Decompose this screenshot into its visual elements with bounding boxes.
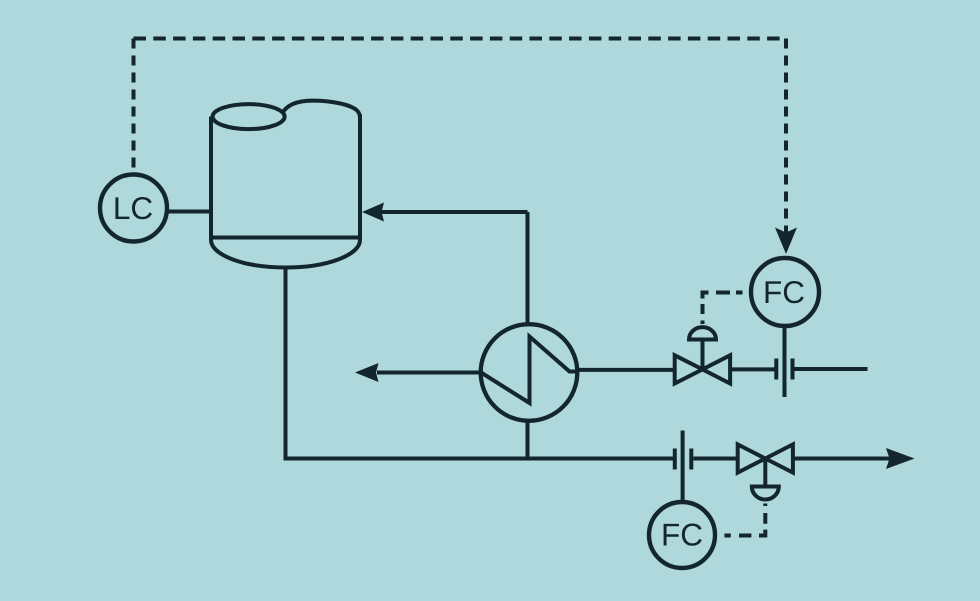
orifice flange right bar (top line) bbox=[791, 359, 795, 380]
controller FC (top) bbox=[751, 258, 819, 326]
controller LC bbox=[100, 175, 167, 242]
tank bottom dish bbox=[211, 240, 360, 267]
wire: riser down to heat exchanger bbox=[526, 212, 530, 324]
wire: inlet pipe into tank bbox=[380, 210, 528, 214]
tank T1 bbox=[211, 101, 360, 268]
wire: valve V1 to orifice bbox=[730, 367, 775, 371]
heat exchanger E1 bbox=[481, 324, 578, 421]
wire: dashed signal FC to valve V1 bbox=[703, 293, 748, 325]
control valve V1 (top) bbox=[675, 327, 730, 383]
wire: dashed signal top run bbox=[134, 37, 787, 41]
tank top ellipse bbox=[213, 104, 285, 129]
arrowhead into FC (signal) bbox=[775, 228, 797, 255]
tank right wall bbox=[358, 114, 362, 240]
arrowhead product outlet bbox=[886, 448, 915, 469]
wire: dashed signal drop to FC bbox=[784, 39, 788, 234]
arrowhead into tank bbox=[362, 203, 384, 222]
orifice flange right bar (bottom line) bbox=[689, 449, 693, 470]
tank dome top bbox=[282, 101, 360, 118]
wire: HX bottom stub to bottom pipe bbox=[526, 419, 530, 459]
wire: pipe orifice to valve V2 bbox=[693, 457, 737, 461]
controller FC (bottom) bbox=[649, 502, 715, 568]
tank liquid level line bbox=[211, 236, 360, 240]
heat exchanger zigzag coil bbox=[481, 337, 578, 404]
orifice tap line to FC bbox=[783, 328, 787, 397]
wire: HX left outlet bbox=[377, 371, 482, 375]
arrowhead left outlet bbox=[355, 363, 379, 382]
wire: HX right to valve bbox=[577, 368, 676, 372]
wire: dashed signal bottom FC to valve V2 bbox=[718, 504, 765, 536]
valve V1 actuator diaphragm bbox=[689, 327, 716, 339]
orifice flange left bar (top line) bbox=[774, 359, 778, 380]
orifice flange left bar (bottom line) bbox=[673, 449, 677, 470]
tank left wall bbox=[209, 117, 213, 241]
valve V1 stem bbox=[701, 340, 705, 370]
wire: dashed signal LC riser bbox=[132, 39, 136, 171]
wire: LC to tank bbox=[167, 210, 213, 214]
control valve V2 (bottom) bbox=[738, 444, 793, 499]
valve V2 stem bbox=[763, 459, 767, 487]
orifice tap line to bottom FC bbox=[681, 431, 685, 501]
wire: pipe after orifice bbox=[795, 367, 868, 371]
valve V2 actuator diaphragm (inverted) bbox=[752, 487, 779, 500]
wire: outlet pipe to product arrow bbox=[795, 457, 892, 461]
wire: tank outlet down to bottom pipe bbox=[286, 266, 674, 459]
